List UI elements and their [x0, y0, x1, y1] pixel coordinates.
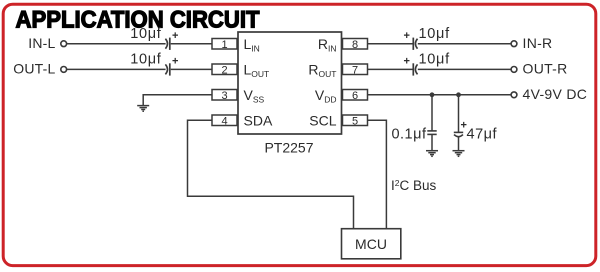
wire OUT-L to C2	[67, 68, 166, 70]
junction node at C5	[430, 92, 435, 97]
svg-text:4V-9V DC: 4V-9V DC	[523, 86, 588, 102]
junction node at C6	[456, 92, 461, 97]
ground G3	[453, 151, 465, 157]
svg-text:10μf: 10μf	[419, 52, 451, 68]
capacitor C6 47uf	[454, 120, 498, 143]
capacitor C2 10uf	[130, 52, 178, 76]
MCU block	[342, 229, 401, 259]
wire pin7 to C4	[368, 68, 414, 70]
ground G2	[426, 151, 438, 157]
wire node to C5	[431, 95, 433, 131]
svg-text:+: +	[172, 30, 178, 42]
svg-text:SCL: SCL	[309, 112, 336, 128]
svg-text:PT2257: PT2257	[264, 140, 313, 156]
pin box 2	[212, 64, 237, 76]
pin box 4	[212, 115, 237, 127]
wire pin4 SDA to MCU	[188, 120, 354, 228]
IC U1 PT2257 body	[238, 32, 342, 134]
svg-text:IN-R: IN-R	[523, 35, 553, 51]
svg-text:MCU: MCU	[355, 236, 387, 252]
wire C1 to pin1	[171, 43, 212, 45]
wire C2 to pin2	[171, 68, 212, 70]
svg-text:7: 7	[352, 64, 358, 76]
svg-text:3: 3	[221, 90, 227, 102]
svg-text:+: +	[172, 56, 178, 68]
svg-text:4: 4	[221, 115, 227, 127]
svg-text:+: +	[404, 56, 410, 68]
terminal 4V-9V DC	[511, 86, 587, 102]
wire pin6 to 4V-9V DC	[368, 94, 512, 96]
svg-text:IN-L: IN-L	[28, 35, 55, 51]
capacitor C3 10uf	[404, 26, 451, 50]
wire pin5 SCL to MCU	[368, 120, 387, 228]
svg-text:8: 8	[352, 39, 358, 51]
svg-text:5: 5	[352, 115, 358, 127]
wire C3 to IN-R	[418, 43, 511, 45]
svg-text:SDA: SDA	[244, 112, 273, 128]
terminal IN-R	[511, 35, 552, 51]
capacitor C1 10uf	[130, 26, 178, 50]
capacitor C4 10uf	[404, 52, 451, 76]
svg-text:+: +	[404, 30, 410, 42]
svg-text:10μf: 10μf	[130, 52, 162, 68]
wire pin3 to ground	[143, 95, 212, 106]
terminal IN-L	[28, 35, 66, 51]
pin box 8	[343, 39, 368, 51]
svg-text:6: 6	[352, 90, 358, 102]
svg-text:47μf: 47μf	[467, 127, 498, 143]
svg-text:OUT-L: OUT-L	[13, 61, 55, 77]
svg-text:OUT-R: OUT-R	[523, 61, 568, 77]
svg-text:2: 2	[221, 64, 227, 76]
wire node to C6	[458, 95, 460, 133]
capacitor C5 0.1uf	[391, 127, 436, 143]
pin box 3	[212, 90, 237, 102]
terminal OUT-R	[511, 61, 567, 77]
svg-text:0.1μf: 0.1μf	[391, 127, 427, 143]
svg-text:10μf: 10μf	[419, 26, 451, 42]
pin box 7	[343, 64, 368, 76]
wire C5 to ground	[431, 134, 433, 150]
wire pin8 to C3	[368, 43, 414, 45]
ground G1	[137, 106, 149, 112]
svg-text:10μf: 10μf	[130, 26, 162, 42]
wire C6 to ground	[458, 137, 460, 151]
wire IN-L to C1	[67, 43, 166, 45]
pin box 5	[343, 115, 368, 127]
pin box 1	[212, 39, 237, 51]
wire C4 to OUT-R	[418, 68, 511, 70]
pin box 6	[343, 90, 368, 102]
svg-text:1: 1	[221, 39, 227, 51]
terminal OUT-L	[13, 61, 66, 77]
